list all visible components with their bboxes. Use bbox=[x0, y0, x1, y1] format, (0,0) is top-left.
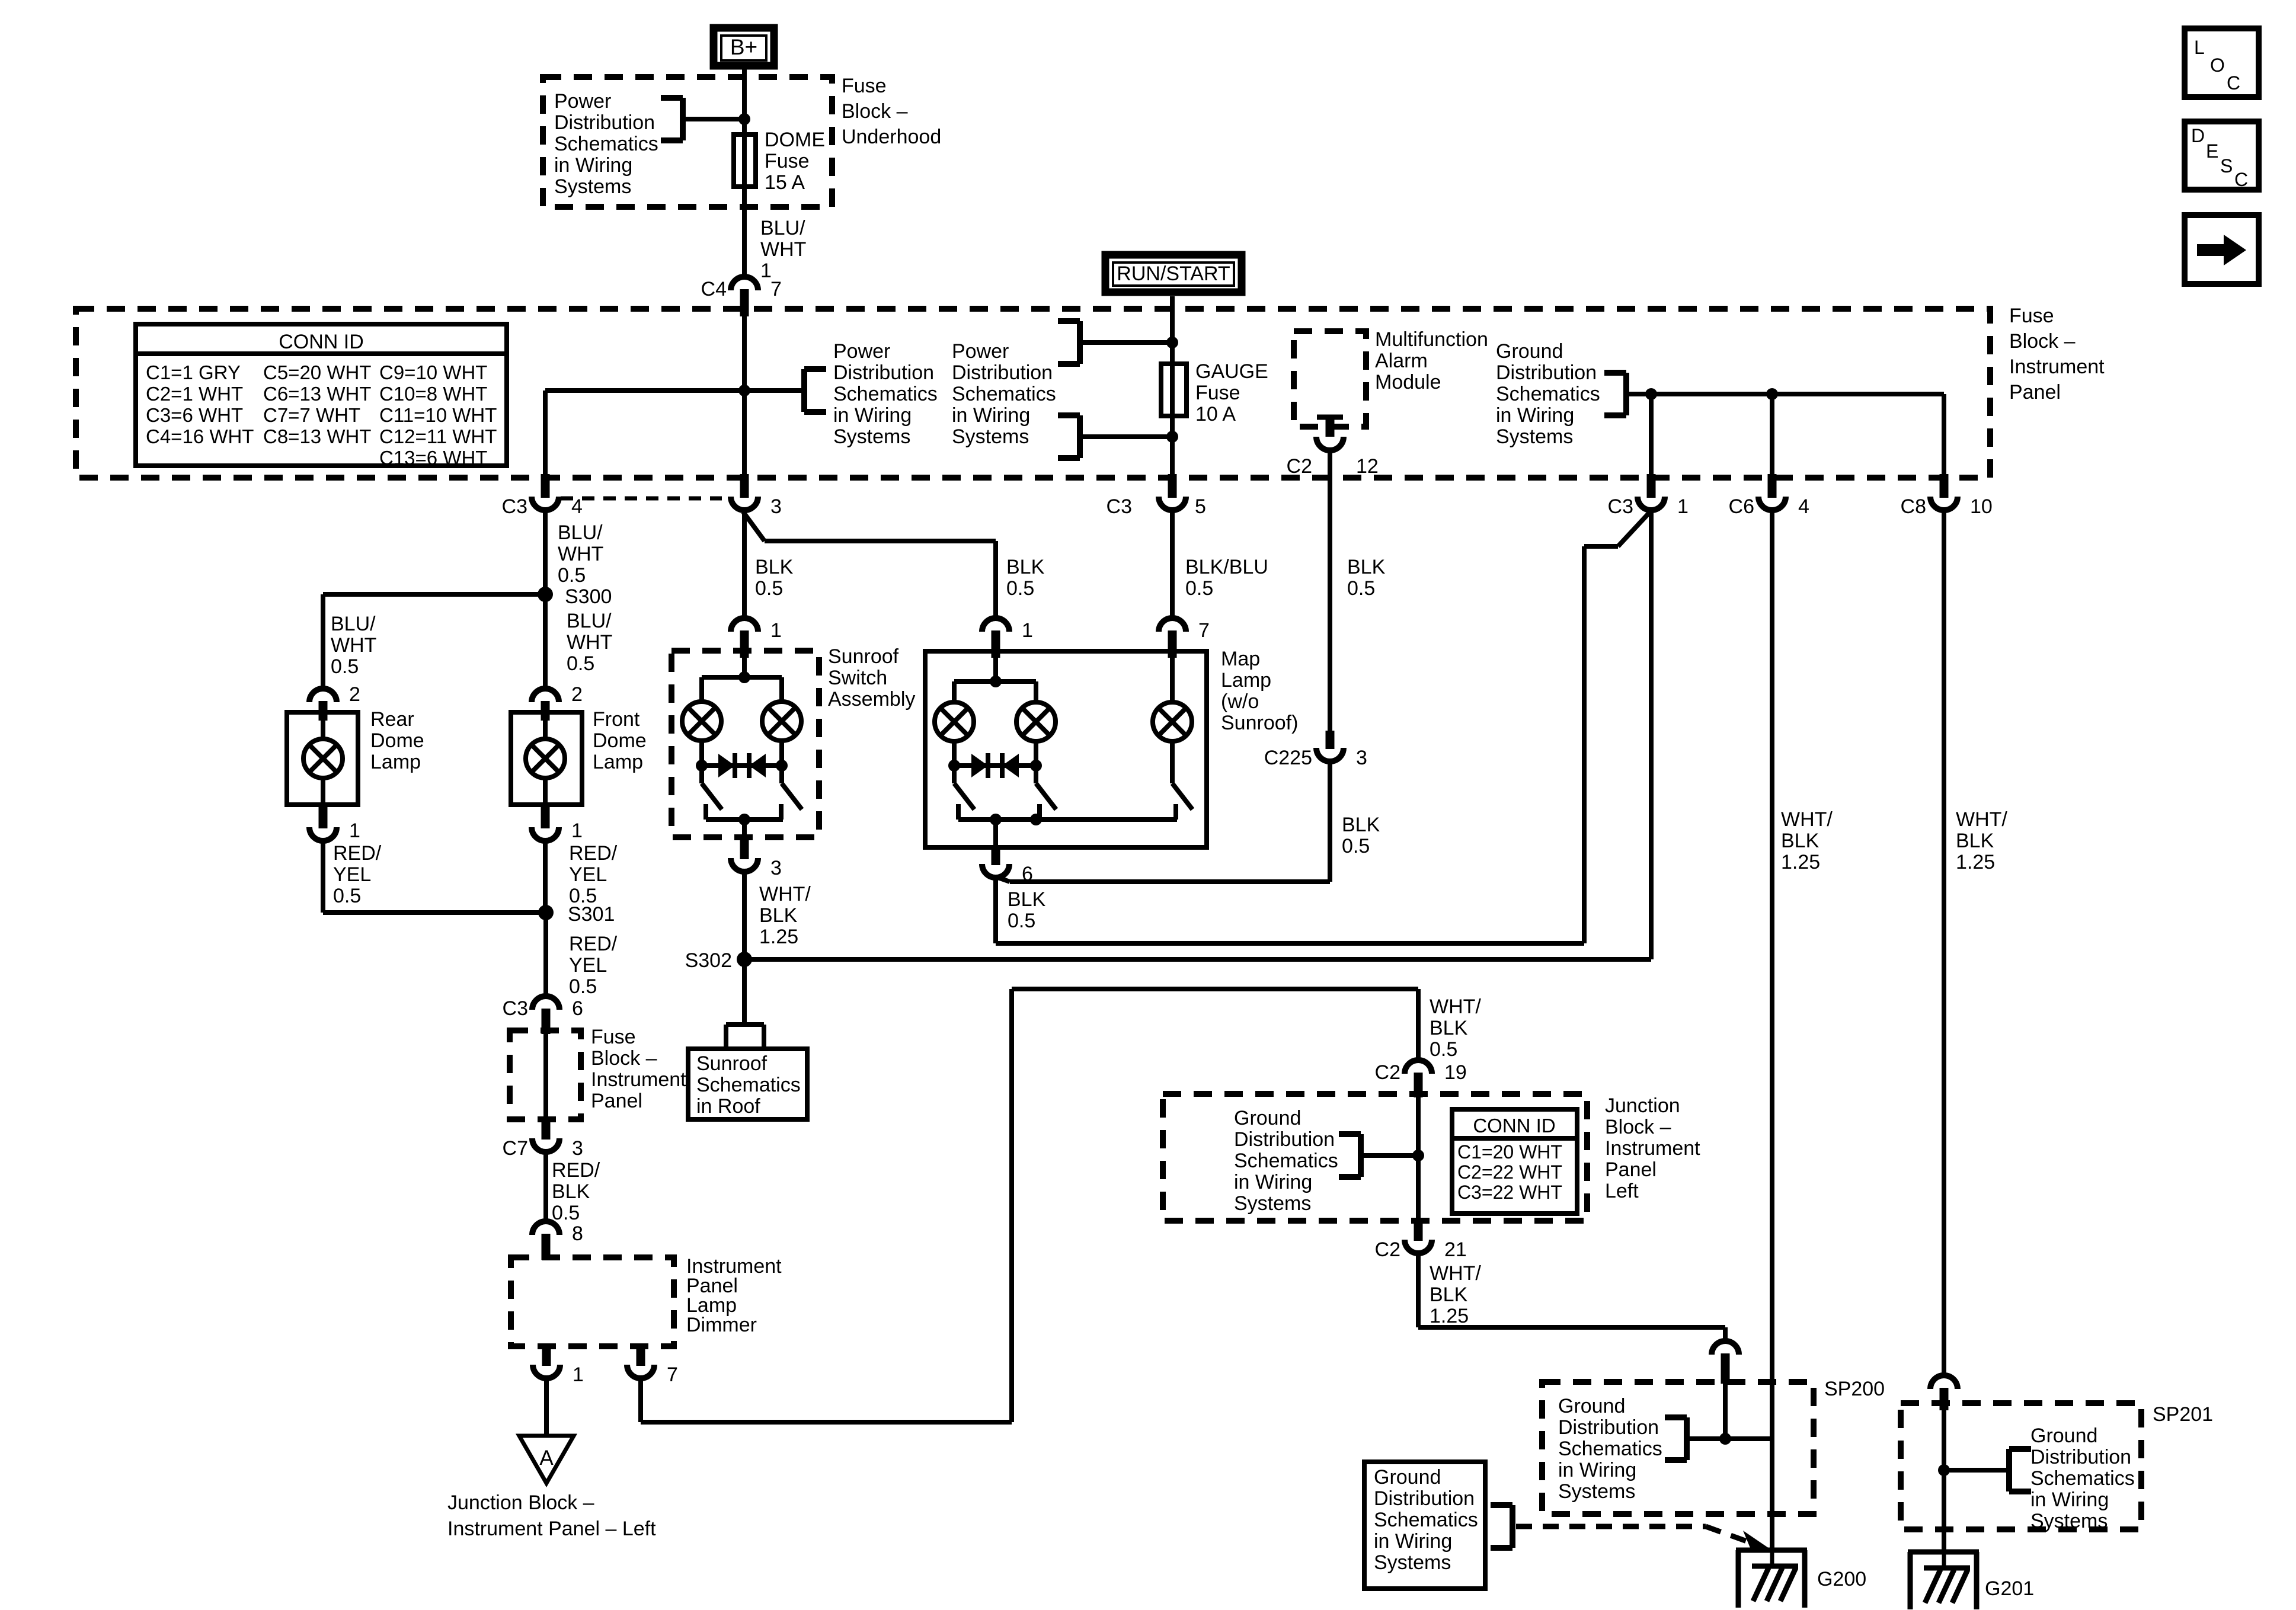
svg-text:in Roof: in Roof bbox=[696, 1095, 760, 1118]
svg-text:Multifunction: Multifunction bbox=[1375, 328, 1488, 351]
svg-text:C2=1 WHT: C2=1 WHT bbox=[146, 383, 243, 405]
connector C2 pin 21 bbox=[1375, 1222, 1467, 1261]
front dome lamp box bbox=[511, 712, 582, 805]
svg-text:0.5: 0.5 bbox=[1006, 577, 1034, 600]
node S300 bbox=[538, 585, 612, 608]
svg-text:C2: C2 bbox=[1287, 455, 1312, 478]
sunroof bottom bus bbox=[706, 814, 783, 825]
svg-text:Schematics: Schematics bbox=[952, 383, 1056, 405]
pointer to G200 bbox=[1516, 1526, 1771, 1550]
dotted connector tie C3 bbox=[561, 497, 722, 501]
svg-text:BLK: BLK bbox=[1430, 1283, 1468, 1306]
svg-text:Lamp: Lamp bbox=[370, 751, 421, 773]
svg-text:CONN ID: CONN ID bbox=[1473, 1115, 1555, 1137]
svg-text:BLK: BLK bbox=[1781, 830, 1819, 852]
svg-text:C4=16 WHT: C4=16 WHT bbox=[146, 425, 254, 447]
svg-text:3: 3 bbox=[770, 495, 782, 518]
svg-text:WHT: WHT bbox=[331, 634, 376, 657]
label Fuse Block - Instrument Panel (right) bbox=[2009, 305, 2105, 404]
wire C7-3 to dimmer bbox=[543, 1152, 548, 1221]
label Front Dome Lamp bbox=[593, 708, 647, 773]
svg-text:Schematics: Schematics bbox=[554, 133, 658, 155]
svg-text:C3=6 WHT: C3=6 WHT bbox=[146, 404, 243, 426]
svg-text:D: D bbox=[2191, 125, 2205, 146]
svg-text:Schematics: Schematics bbox=[1374, 1509, 1478, 1531]
svg-text:G200: G200 bbox=[1817, 1568, 1866, 1590]
svg-text:Distribution: Distribution bbox=[833, 361, 934, 384]
node splice underhood bbox=[738, 113, 750, 125]
label Instrument Panel Lamp Dimmer bbox=[686, 1255, 782, 1336]
connector front dome pin 2 bbox=[532, 683, 583, 721]
node gauge upper bbox=[1166, 337, 1178, 348]
svg-text:1.25: 1.25 bbox=[1430, 1305, 1469, 1327]
connector C3 pin 5 bbox=[1107, 474, 1206, 518]
svg-text:Ground: Ground bbox=[1496, 340, 1563, 363]
svg-text:BLK: BLK bbox=[755, 556, 794, 578]
label BLK 0.5 (map pin1) bbox=[1006, 556, 1045, 600]
label RED/YEL 0.5 (below S301) bbox=[569, 933, 618, 998]
svg-text:C3: C3 bbox=[502, 495, 527, 518]
svg-text:Ground: Ground bbox=[1558, 1395, 1625, 1417]
label Sunroof Schematics in Roof bbox=[696, 1052, 801, 1118]
power feed RUN/START box bbox=[1105, 255, 1242, 292]
svg-text:Schematics: Schematics bbox=[1558, 1438, 1662, 1460]
label WHT/BLK 0.5 (C2-19) bbox=[1430, 996, 1481, 1061]
CONN ID table (fuse block) bbox=[136, 324, 507, 469]
label Junction Block - Instrument Panel Left bbox=[1605, 1094, 1700, 1202]
wire C225 to map pin6 link bbox=[996, 762, 1330, 882]
svg-text:Junction: Junction bbox=[1605, 1094, 1680, 1117]
connector map pin 6 bbox=[982, 820, 1033, 885]
svg-text:Systems: Systems bbox=[833, 425, 910, 448]
svg-text:0.5: 0.5 bbox=[1430, 1038, 1457, 1061]
svg-text:C225: C225 bbox=[1264, 747, 1312, 769]
CONN ID table (junction block) bbox=[1452, 1109, 1577, 1214]
label Ground Distribution Schematics (solid box) bbox=[1374, 1466, 1478, 1574]
wire rear pin1 to S301 bbox=[323, 841, 546, 913]
svg-text:Fuse: Fuse bbox=[842, 75, 887, 97]
svg-text:BLU/: BLU/ bbox=[567, 610, 612, 632]
svg-text:1: 1 bbox=[1677, 495, 1689, 518]
label Rear Dome Lamp bbox=[370, 708, 424, 773]
node gauge lower bbox=[1166, 431, 1178, 443]
svg-text:8: 8 bbox=[572, 1222, 583, 1245]
node S301 bbox=[538, 903, 615, 926]
svg-text:Distribution: Distribution bbox=[1234, 1128, 1335, 1151]
wire SP200 node link bbox=[1687, 1384, 1772, 1439]
svg-text:S: S bbox=[2220, 155, 2233, 177]
svg-text:C6=13 WHT: C6=13 WHT bbox=[263, 383, 371, 405]
map lamp feed wires bbox=[954, 681, 1036, 703]
connector C2 pin 12 bbox=[1287, 437, 1379, 478]
connector sunroof pin 1 bbox=[731, 618, 782, 658]
connector SP200 feed bbox=[1712, 1341, 1739, 1384]
wire SP201 node link bbox=[1944, 1410, 2009, 1552]
svg-text:Sunroof: Sunroof bbox=[828, 645, 899, 668]
connector front dome pin 1 bbox=[532, 805, 583, 842]
svg-text:SP200: SP200 bbox=[1824, 1378, 1885, 1400]
sunroof diodes bbox=[718, 753, 766, 778]
svg-text:Sunroof: Sunroof bbox=[696, 1052, 768, 1075]
svg-text:21: 21 bbox=[1444, 1238, 1467, 1261]
ground distribution solid box bbox=[1364, 1462, 1485, 1589]
svg-text:Lamp: Lamp bbox=[1221, 669, 1271, 692]
wire bracket to node bbox=[683, 117, 744, 121]
rear dome lamp bulb bbox=[303, 721, 343, 805]
svg-text:BLK: BLK bbox=[759, 904, 798, 927]
svg-text:RED/: RED/ bbox=[569, 933, 618, 955]
wire C6-4 to G200 bbox=[1770, 511, 1774, 1550]
svg-text:WHT: WHT bbox=[760, 238, 806, 261]
svg-text:3: 3 bbox=[770, 857, 782, 879]
svg-text:0.5: 0.5 bbox=[1008, 910, 1035, 932]
svg-text:3: 3 bbox=[572, 1137, 583, 1160]
map internal top node bbox=[990, 658, 1002, 687]
label Multifunction Alarm Module bbox=[1375, 328, 1488, 393]
label Power Distribution Schematics 2 bbox=[952, 340, 1056, 448]
label BLU/WHT 0.5 (rear) bbox=[331, 613, 376, 678]
connector dimmer pin 1 bbox=[533, 1346, 584, 1386]
power feed B+ box bbox=[714, 28, 774, 66]
map third contact bbox=[1173, 804, 1178, 820]
map switch blades bbox=[954, 766, 1056, 809]
svg-text:Schematics: Schematics bbox=[696, 1074, 801, 1096]
splice SP200 dashed box bbox=[1542, 1382, 1814, 1514]
wire B+ to C4 bbox=[742, 69, 747, 276]
svg-text:0.5: 0.5 bbox=[552, 1202, 580, 1224]
svg-text:Instrument: Instrument bbox=[1605, 1137, 1700, 1160]
svg-text:C1=1 GRY: C1=1 GRY bbox=[146, 361, 241, 383]
wire C3-5 to map pin7 bbox=[1170, 511, 1175, 618]
wire C8-10 to SP201 bbox=[1942, 511, 1946, 1376]
connector map pin 7 bbox=[1159, 618, 1210, 658]
wire pin3 to sunroof switch bbox=[742, 511, 747, 618]
svg-text:Block –: Block – bbox=[2009, 330, 2076, 353]
bracket SP201 bbox=[2009, 1449, 2031, 1491]
label Junction Block - Instrument Panel - Left bbox=[447, 1491, 656, 1540]
label WHT/BLK 1.25 (sunroof) bbox=[759, 883, 811, 948]
svg-text:BLK: BLK bbox=[1347, 556, 1386, 578]
label BLK 0.5 (map ground) bbox=[1008, 888, 1046, 932]
svg-text:RED/: RED/ bbox=[552, 1159, 600, 1182]
wire bracket to gauge node lower bbox=[1080, 434, 1172, 439]
svg-text:A: A bbox=[539, 1446, 554, 1470]
svg-text:WHT/: WHT/ bbox=[1430, 1262, 1481, 1285]
bracket power distribution 1 bbox=[804, 369, 826, 412]
svg-text:BLK: BLK bbox=[1342, 814, 1380, 836]
svg-text:C7: C7 bbox=[503, 1137, 528, 1160]
svg-text:Block –: Block – bbox=[1605, 1116, 1671, 1138]
svg-text:S301: S301 bbox=[568, 903, 615, 926]
svg-text:Systems: Systems bbox=[1374, 1551, 1451, 1574]
connector rear dome pin 1 bbox=[309, 805, 360, 842]
svg-text:Fuse: Fuse bbox=[591, 1026, 636, 1048]
svg-text:BLU/: BLU/ bbox=[558, 521, 603, 544]
wire gauge fuse to C3-5 bbox=[1170, 416, 1175, 474]
svg-text:in Wiring: in Wiring bbox=[1496, 404, 1574, 427]
svg-text:Ground: Ground bbox=[1374, 1466, 1441, 1489]
svg-text:10 A: 10 A bbox=[1195, 403, 1236, 425]
wire S300 to front lamp bbox=[543, 594, 548, 689]
svg-text:BLU/: BLU/ bbox=[760, 217, 805, 239]
svg-text:Panel: Panel bbox=[2009, 381, 2061, 404]
node junction block bbox=[1412, 1150, 1424, 1161]
label BLU/WHT 0.5 (C3-4) bbox=[558, 521, 603, 587]
wire S301 to C3-6 bbox=[543, 913, 548, 996]
svg-text:Dome: Dome bbox=[370, 729, 424, 752]
wire trunk inside fuse block bbox=[742, 316, 747, 474]
label BLU/WHT 0.5 (front) bbox=[567, 610, 612, 675]
map diode bus bbox=[948, 760, 1042, 772]
svg-text:Rear: Rear bbox=[370, 708, 414, 731]
svg-text:Power: Power bbox=[952, 340, 1009, 363]
wire bracket to gauge node upper bbox=[1080, 340, 1172, 345]
sunroof schematics flag bbox=[726, 1025, 764, 1050]
sunroof lamp left bbox=[682, 702, 721, 741]
map lamp box bbox=[925, 651, 1207, 847]
label SP200 bbox=[1824, 1378, 1885, 1400]
label Ground Distribution Schematics (fuse block) bbox=[1496, 340, 1600, 448]
node S302 bbox=[685, 949, 752, 972]
connector C3 pin 6 bbox=[503, 996, 583, 1034]
sunroof lamp feed wires bbox=[702, 677, 782, 703]
label BLU/WHT 1 bbox=[760, 217, 806, 282]
svg-text:Panel: Panel bbox=[591, 1090, 642, 1112]
label Map Lamp w/o Sunroof bbox=[1221, 648, 1298, 734]
wire C3-4 to S300 bbox=[543, 511, 548, 594]
wire node to C3-4 drop bbox=[545, 391, 744, 474]
svg-text:Panel: Panel bbox=[1605, 1158, 1657, 1181]
svg-text:15 A: 15 A bbox=[765, 171, 805, 194]
map diodes bbox=[971, 753, 1019, 778]
svg-text:WHT/: WHT/ bbox=[1781, 808, 1833, 831]
icon LOC bbox=[2185, 28, 2259, 97]
connector dimmer pin 8 bbox=[532, 1221, 583, 1260]
svg-text:0.5: 0.5 bbox=[1347, 577, 1375, 600]
svg-text:in Wiring: in Wiring bbox=[2030, 1489, 2109, 1511]
svg-text:BLK: BLK bbox=[1006, 556, 1045, 578]
svg-text:Distribution: Distribution bbox=[1496, 361, 1597, 384]
connector C4 pin 7 bbox=[701, 277, 782, 316]
svg-text:Ground: Ground bbox=[2030, 1425, 2097, 1447]
svg-text:1.25: 1.25 bbox=[1956, 851, 1995, 873]
svg-text:Systems: Systems bbox=[952, 425, 1029, 448]
svg-text:C9=10 WHT: C9=10 WHT bbox=[379, 361, 487, 383]
connector C3 pin 4 bbox=[502, 474, 583, 518]
svg-text:in Wiring: in Wiring bbox=[1374, 1530, 1452, 1553]
connector C6 pin 4 bbox=[1729, 474, 1809, 518]
sunroof schematics box bbox=[688, 1049, 807, 1119]
bracket SP200 bbox=[1665, 1417, 1687, 1460]
sunroof lamp right bbox=[762, 702, 801, 741]
svg-text:C: C bbox=[2234, 169, 2248, 190]
connector rear dome pin 2 bbox=[309, 683, 360, 721]
connector C3 pin 1 bbox=[1608, 474, 1689, 518]
label DOME Fuse 15 A bbox=[765, 129, 825, 194]
label BLK 0.5 (sunroof) bbox=[755, 556, 794, 600]
map lamp drops bbox=[954, 740, 1036, 766]
multifunction alarm module dashed box bbox=[1294, 331, 1366, 427]
svg-text:Instrument: Instrument bbox=[591, 1068, 686, 1091]
svg-text:GAUGE: GAUGE bbox=[1195, 360, 1268, 383]
svg-text:1: 1 bbox=[349, 820, 360, 842]
svg-text:Systems: Systems bbox=[2030, 1510, 2108, 1532]
connector C8 pin 10 bbox=[1901, 474, 1993, 518]
map third lamp bbox=[1153, 658, 1192, 783]
svg-text:in Wiring: in Wiring bbox=[554, 154, 632, 177]
svg-text:Map: Map bbox=[1221, 648, 1260, 670]
fuse block IP small dashed box bbox=[510, 1030, 581, 1119]
svg-text:Block –: Block – bbox=[591, 1047, 657, 1070]
svg-text:C2=22 WHT: C2=22 WHT bbox=[1457, 1161, 1562, 1183]
connector map pin 1 bbox=[982, 618, 1033, 658]
svg-text:WHT/: WHT/ bbox=[1956, 808, 2007, 831]
svg-text:Instrument Panel – Left: Instrument Panel – Left bbox=[447, 1518, 656, 1540]
svg-text:YEL: YEL bbox=[569, 863, 607, 886]
svg-text:7: 7 bbox=[770, 278, 782, 300]
svg-text:C10=8 WHT: C10=8 WHT bbox=[379, 383, 487, 405]
svg-text:C3: C3 bbox=[503, 997, 528, 1020]
svg-text:C12=11 WHT: C12=11 WHT bbox=[379, 425, 497, 447]
sunroof switch assembly dashed box bbox=[671, 651, 819, 837]
label BLK 0.5 (below C225) bbox=[1342, 814, 1380, 857]
wire through junction block bbox=[1416, 1097, 1421, 1222]
ground G200 bbox=[1736, 1548, 1866, 1608]
junction block dashed box bbox=[1163, 1094, 1587, 1221]
node SP200 bbox=[1719, 1433, 1731, 1445]
map lamp left bbox=[935, 702, 974, 741]
svg-text:C8: C8 bbox=[1901, 495, 1926, 518]
svg-text:C2: C2 bbox=[1375, 1061, 1400, 1084]
bracket solid box bbox=[1491, 1505, 1512, 1548]
sunroof diode bus bbox=[696, 760, 788, 772]
connector sunroof pin 3 bbox=[731, 820, 782, 879]
svg-text:E: E bbox=[2206, 140, 2218, 162]
svg-text:S300: S300 bbox=[565, 585, 612, 608]
label Power Distribution Schematics 1 bbox=[833, 340, 938, 448]
svg-text:1: 1 bbox=[571, 820, 583, 842]
fuse block instrument panel dashed box bbox=[76, 309, 1990, 478]
svg-text:19: 19 bbox=[1444, 1061, 1467, 1084]
connector C225 pin 3 bbox=[1264, 731, 1367, 769]
wire RUN/START to gauge fuse bbox=[1170, 296, 1175, 364]
label RED/BLK 0.5 bbox=[552, 1159, 600, 1224]
svg-text:(w/o: (w/o bbox=[1221, 690, 1259, 713]
svg-text:Instrument: Instrument bbox=[2009, 356, 2105, 378]
label Fuse Block - Instrument Panel (small) bbox=[591, 1026, 686, 1112]
label BLK 0.5 (alarm wire) bbox=[1347, 556, 1386, 600]
svg-text:Distribution: Distribution bbox=[952, 361, 1053, 384]
svg-text:DOME: DOME bbox=[765, 129, 825, 151]
ground G201 bbox=[1908, 1550, 2034, 1609]
connector dimmer pin 7 bbox=[627, 1346, 678, 1386]
svg-text:4: 4 bbox=[1798, 495, 1809, 518]
label Ground Distribution Schematics (SP200) bbox=[1558, 1395, 1662, 1503]
svg-text:Fuse: Fuse bbox=[765, 150, 810, 172]
wire junction bracket to node bbox=[1361, 1153, 1418, 1158]
svg-text:G201: G201 bbox=[1985, 1577, 2034, 1600]
label RED/YEL 0.5 (front) bbox=[569, 842, 618, 907]
svg-text:10: 10 bbox=[1970, 495, 1993, 518]
svg-text:BLK: BLK bbox=[1956, 830, 1994, 852]
svg-text:3: 3 bbox=[1356, 747, 1367, 769]
svg-text:Distribution: Distribution bbox=[554, 111, 655, 134]
sunroof lamp drops bbox=[702, 740, 782, 766]
svg-text:RED/: RED/ bbox=[333, 842, 382, 865]
svg-text:Switch: Switch bbox=[828, 667, 887, 689]
map switch contacts bbox=[958, 804, 1040, 820]
node ground header C3-1 bbox=[1645, 388, 1657, 400]
svg-text:in Wiring: in Wiring bbox=[1234, 1171, 1312, 1193]
svg-text:YEL: YEL bbox=[569, 954, 607, 977]
bracket power distribution 2 lower bbox=[1058, 415, 1080, 458]
label Ground Distribution Schematics (SP201) bbox=[2030, 1425, 2135, 1532]
svg-text:0.5: 0.5 bbox=[1342, 835, 1370, 857]
svg-text:C3: C3 bbox=[1107, 495, 1132, 518]
svg-text:Distribution: Distribution bbox=[2030, 1446, 2131, 1468]
node SP201 bbox=[1938, 1464, 1950, 1476]
svg-text:C11=10 WHT: C11=10 WHT bbox=[379, 404, 497, 426]
svg-text:Systems: Systems bbox=[1558, 1480, 1635, 1503]
label Sunroof Switch Assembly bbox=[828, 645, 915, 710]
map bottom bus bbox=[958, 814, 1177, 825]
wire C2-12 to C225 bbox=[1328, 450, 1332, 731]
svg-text:0.5: 0.5 bbox=[755, 577, 783, 600]
svg-text:Power: Power bbox=[833, 340, 890, 363]
svg-text:C1=20 WHT: C1=20 WHT bbox=[1457, 1141, 1562, 1163]
label WHT/BLK 1.25 (C2-21) bbox=[1430, 1262, 1481, 1327]
svg-text:0.5: 0.5 bbox=[569, 975, 597, 998]
svg-text:1: 1 bbox=[573, 1363, 584, 1386]
svg-text:O: O bbox=[2210, 55, 2225, 76]
svg-text:1: 1 bbox=[770, 619, 782, 642]
label WHT/BLK 1.25 (C8-10) bbox=[1956, 808, 2007, 873]
map third blade bbox=[1172, 783, 1192, 809]
splice SP201 dashed box bbox=[1901, 1403, 2141, 1529]
instrument panel lamp dimmer dashed box bbox=[511, 1257, 674, 1346]
svg-text:Assembly: Assembly bbox=[828, 688, 915, 710]
svg-text:BLK: BLK bbox=[1008, 888, 1046, 911]
node ground header C6-4 bbox=[1766, 388, 1778, 400]
svg-text:Underhood: Underhood bbox=[842, 126, 941, 148]
svg-text:Schematics: Schematics bbox=[2030, 1467, 2135, 1490]
wire dimmer pin7 to C2-19 bbox=[641, 989, 1418, 1422]
svg-text:Distribution: Distribution bbox=[1558, 1416, 1659, 1439]
svg-text:Distribution: Distribution bbox=[1374, 1487, 1475, 1510]
svg-text:B+: B+ bbox=[730, 35, 757, 59]
sunroof switch blades bbox=[702, 766, 802, 809]
map lamp mid bbox=[1016, 702, 1056, 741]
svg-text:WHT: WHT bbox=[558, 543, 603, 565]
svg-text:12: 12 bbox=[1356, 455, 1379, 478]
svg-text:5: 5 bbox=[1195, 495, 1206, 518]
svg-text:1: 1 bbox=[1022, 619, 1033, 642]
rear dome lamp box bbox=[287, 712, 358, 805]
svg-text:YEL: YEL bbox=[333, 863, 371, 886]
icon arrow bbox=[2185, 215, 2259, 284]
connector C7 pin 3 bbox=[503, 1117, 583, 1160]
label SP201 bbox=[2153, 1403, 2213, 1426]
svg-text:BLK/BLU: BLK/BLU bbox=[1185, 556, 1268, 578]
svg-text:Ground: Ground bbox=[1234, 1107, 1301, 1129]
fuse block underhood dashed box bbox=[543, 77, 832, 207]
connector pin 3 (dome trunk) bbox=[731, 474, 782, 518]
label WHT/BLK 1.25 (C6-4) bbox=[1781, 808, 1833, 873]
svg-text:Systems: Systems bbox=[554, 175, 631, 198]
wire S302 to C3-1 bbox=[744, 511, 1651, 959]
wire sunroof pin3 to S302 bbox=[742, 872, 747, 1025]
bracket power distribution 2 upper bbox=[1058, 321, 1080, 364]
